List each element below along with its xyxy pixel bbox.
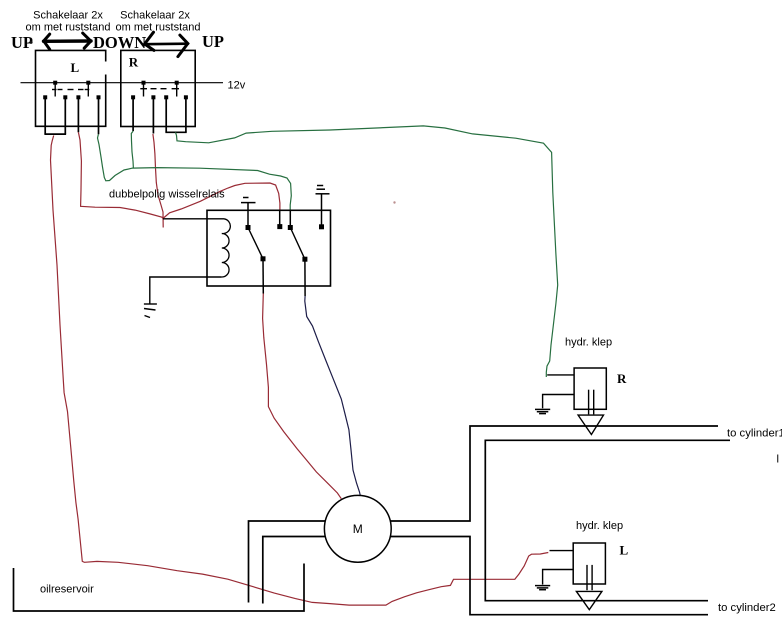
- relay pole 2 common dot: [302, 257, 307, 262]
- relay pole 2 arm: [290, 228, 305, 260]
- wire red from junction up to relay contact: [164, 183, 280, 218]
- switch R actuator linkage: [140, 83, 179, 97]
- stray dot left of arrow: [29, 41, 32, 44]
- switch L actuator linkage: [52, 83, 89, 97]
- motor pipe left lower: [263, 537, 325, 604]
- switch L contacts on 12v line: [53, 81, 90, 85]
- relay pole 1 NC stem: [247, 203, 249, 228]
- valve L box: [573, 543, 605, 584]
- svg-text:to cylinder2: to cylinder2: [718, 602, 776, 614]
- switch R terminal stubs and bracket: [133, 97, 187, 133]
- svg-text:M: M: [353, 522, 363, 536]
- svg-text:R: R: [129, 55, 139, 70]
- svg-text:dubbelpolig wisselrelais: dubbelpolig wisselrelais: [109, 189, 225, 201]
- wire red from relay pole 1 common to motor: [263, 294, 342, 499]
- svg-text:to cylinder1: to cylinder1: [727, 428, 782, 440]
- ground (valve R): [535, 409, 550, 413]
- arrow double-headed (right switch): [144, 32, 188, 56]
- valve L triangle: [576, 591, 602, 609]
- valve L input stub: [550, 550, 574, 552]
- relay pole 1 common stub down: [262, 259, 264, 294]
- switch R terminals: [131, 95, 188, 99]
- relay pole 2 contact stub (red fed): [279, 210, 281, 227]
- switch L box: [36, 50, 106, 126]
- relay pole 1 common dot: [261, 256, 266, 261]
- valve R box: [574, 368, 606, 409]
- valve L inner plungers: [587, 565, 592, 590]
- relay pole 2 NC contact dot: [319, 224, 324, 229]
- svg-text:om met ruststand: om met ruststand: [116, 22, 201, 34]
- ground (relay coil): [144, 304, 157, 318]
- valve R ground wire: [543, 395, 575, 409]
- svg-text:om met ruststand: om met ruststand: [26, 22, 111, 34]
- pipe line B to line C via V2: [485, 440, 730, 600]
- valve R inner plungers: [589, 390, 594, 415]
- relay pole 2 common stub down: [304, 259, 306, 296]
- ground (relay pole 1 normally-closed contact): [241, 198, 256, 203]
- wire red from switch L bracket down left side to valve L: [51, 136, 549, 606]
- wire green from switch L terminal 4 to relay contact: [98, 134, 292, 210]
- switch R box: [121, 50, 195, 126]
- svg-text:DOWN: DOWN: [93, 33, 146, 52]
- wire dark blue from relay pole 2 common to motor: [305, 296, 361, 497]
- relay coil bottom wire to ground: [150, 277, 222, 304]
- relay pole 2 NC stem: [321, 194, 323, 227]
- relay pole 1 arm: [248, 228, 263, 259]
- motor M1: [324, 495, 391, 562]
- relay pole 2 contact dot (red fed): [277, 224, 282, 229]
- wire green from switch R bracket to valve R (right side run): [176, 126, 558, 377]
- svg-text:L: L: [620, 543, 629, 558]
- svg-text:oilreservoir: oilreservoir: [40, 584, 94, 596]
- svg-text:l: l: [777, 454, 780, 466]
- motor pipe right upper to line A: [390, 426, 718, 521]
- switch R contacts on 12v line: [142, 81, 179, 85]
- svg-text:R: R: [617, 371, 627, 386]
- relay coil input wire (junction to coil): [163, 218, 224, 220]
- oil reservoir: [14, 564, 305, 612]
- relay pole 2 contact dot (green fed): [288, 225, 293, 230]
- svg-text:12v: 12v: [228, 80, 246, 92]
- motor pipe right lower to line D: [390, 537, 708, 615]
- stray mark: [393, 201, 395, 203]
- ground (valve L): [535, 586, 550, 590]
- relay pole 1 contact dot: [246, 225, 251, 230]
- wire red from switch L terminal 3 to junction: [78, 132, 163, 218]
- arrow double-headed (left switch): [44, 33, 92, 49]
- wire red from switch R terminal 2 to junction: [153, 134, 163, 228]
- svg-text:L: L: [71, 60, 80, 75]
- switch L terminals: [43, 95, 100, 99]
- relay box U1: [207, 210, 331, 286]
- svg-text:Schakelaar 2x: Schakelaar 2x: [33, 10, 103, 22]
- relay coil: [222, 219, 231, 277]
- svg-text:hydr. klep: hydr. klep: [576, 520, 623, 532]
- svg-text:hydr. klep: hydr. klep: [565, 337, 612, 349]
- valve R input stub: [547, 374, 574, 376]
- ground (relay pole 2 NC contact): [316, 186, 330, 194]
- wire green from switch R terminal 1 joining long green: [131, 131, 133, 168]
- relay pole 2 contact stub (green fed): [289, 210, 291, 228]
- svg-text:Schakelaar 2x: Schakelaar 2x: [120, 10, 190, 22]
- valve L ground wire: [543, 570, 574, 585]
- valve R triangle: [578, 415, 603, 434]
- motor pipe left upper: [249, 521, 326, 603]
- wire 12v supply line: [21, 82, 224, 84]
- switch L terminal stubs and bracket: [44, 97, 98, 134]
- svg-text:UP: UP: [202, 32, 224, 51]
